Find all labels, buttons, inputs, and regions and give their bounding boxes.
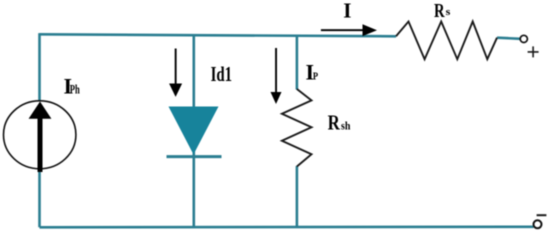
svg-text:sh: sh — [341, 121, 351, 133]
svg-text:R: R — [328, 111, 341, 135]
svg-text:s: s — [446, 7, 451, 18]
svg-text:I: I — [343, 0, 351, 22]
svg-text:Ph: Ph — [70, 82, 81, 97]
svg-text:Id1: Id1 — [211, 62, 233, 86]
svg-text:R: R — [434, 0, 445, 22]
svg-text:P: P — [313, 70, 318, 82]
